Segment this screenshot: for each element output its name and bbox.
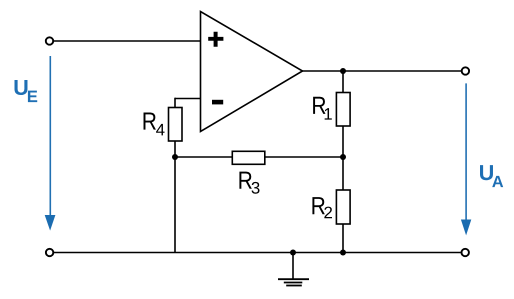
junction R2 bottom on rail — [340, 250, 346, 256]
label R2 : R — [312, 197, 324, 214]
wire: R3 to node B — [264, 156, 343, 158]
wire: bottom rail — [54, 252, 461, 254]
label U_A : A subscript — [492, 176, 503, 187]
op-amp U1 — [201, 12, 303, 132]
terminal top-left — [46, 37, 53, 44]
junction node A (R4/R3/bottom) — [172, 154, 178, 160]
terminal bottom-left — [46, 249, 53, 256]
wire: inverting input horizontal — [175, 98, 201, 100]
resistor R2 body — [336, 190, 350, 224]
wire: R2 bottom stub — [342, 223, 344, 253]
resistor R4 body — [169, 108, 183, 142]
wire: R1 bottom stub — [342, 125, 344, 158]
junction output node — [340, 68, 346, 74]
resistor R3 body — [232, 151, 264, 164]
wire: R2 top stub — [342, 156, 344, 191]
wire: R4 bottom stub — [174, 140, 176, 158]
wire: non-inverting input from left terminal — [54, 40, 201, 42]
ground symbol — [278, 279, 309, 285]
wire: R4 top stub — [174, 98, 176, 109]
wire: node A to R3 — [175, 156, 233, 158]
arrow U_E (input voltage) — [45, 56, 56, 231]
terminal top-right — [462, 67, 469, 74]
label R3 : R — [239, 172, 251, 189]
wire: R1 top stub — [342, 71, 344, 94]
wire: node A down to bottom rail — [174, 157, 176, 253]
label R4 : 4 subscript — [156, 124, 164, 136]
junction node B (R1/R2/R3) — [340, 154, 346, 160]
arrow U_A (output voltage) — [461, 83, 471, 235]
op-amp plus input symbol — [208, 32, 223, 47]
junction ground tap on rail — [290, 250, 296, 256]
label R2 : 2 subscript — [324, 207, 332, 219]
label U_A : U — [480, 165, 493, 180]
resistor R1 body — [336, 93, 350, 127]
label R3 : 3 subscript — [252, 182, 260, 194]
label U_E : E subscript — [28, 91, 37, 102]
label R1 : 1 subscript — [325, 108, 332, 119]
label U_E : U — [15, 80, 28, 95]
op-amp minus input symbol — [212, 100, 223, 105]
wire: op-amp output to right terminal — [303, 70, 462, 72]
terminal bottom-right — [462, 249, 469, 256]
label R4 : R — [144, 112, 156, 129]
label R1 : R — [313, 97, 325, 114]
wire: ground stub — [292, 253, 294, 280]
